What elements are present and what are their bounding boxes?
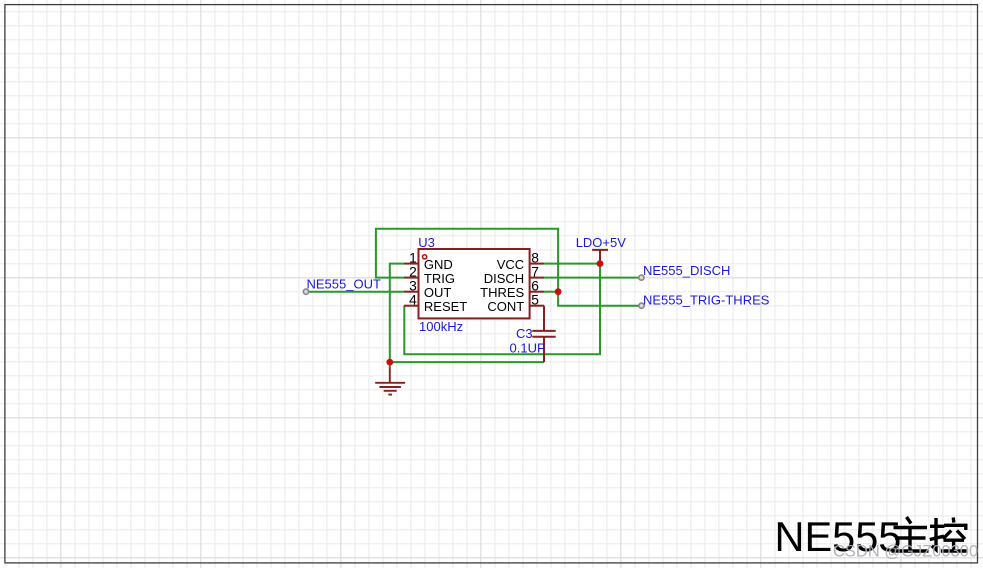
ground xyxy=(389,362,391,368)
svg-text:NE555_DISCH: NE555_DISCH xyxy=(643,263,730,278)
svg-text:VCC: VCC xyxy=(497,257,524,272)
junction ground node xyxy=(386,359,393,366)
node NE555_DISCH endpoint xyxy=(639,275,644,280)
pin 7 stub xyxy=(530,277,544,279)
pin 4 stub xyxy=(404,305,419,307)
power flag LDO+5V xyxy=(592,250,608,264)
svg-text:NE555_TRIG-THRES: NE555_TRIG-THRES xyxy=(643,293,770,308)
svg-text:0.1UF: 0.1UF xyxy=(510,340,545,355)
wire NE555_OUT to pin3 xyxy=(306,291,404,293)
pin 8 stub xyxy=(530,263,544,265)
svg-text:C3: C3 xyxy=(516,326,533,341)
svg-text:100kHz: 100kHz xyxy=(419,319,463,334)
wire GND net: pin1 down to ground rail and C3 bottom xyxy=(390,264,544,363)
svg-text:4: 4 xyxy=(409,293,417,308)
op-amp U3 body (NE555) xyxy=(419,249,530,318)
node NE555_OUT endpoint xyxy=(303,289,308,294)
svg-text:1: 1 xyxy=(409,251,417,266)
svg-text:GND: GND xyxy=(424,257,453,272)
junction THRES node xyxy=(555,288,562,295)
svg-text:U3: U3 xyxy=(418,235,435,250)
svg-text:CONT: CONT xyxy=(487,299,524,314)
svg-text:6: 6 xyxy=(531,279,539,294)
wire NE555_TRIG-THRES: pin2 loop over top to pin6 column and label xyxy=(376,229,642,306)
svg-text:7: 7 xyxy=(531,265,539,280)
svg-text:TRIG: TRIG xyxy=(424,271,455,286)
wire pin6 THRES stub link xyxy=(544,291,558,293)
title glyph 主 xyxy=(892,517,929,551)
pin 6 stub xyxy=(530,291,544,293)
svg-text:DISCH: DISCH xyxy=(484,271,524,286)
svg-text:CSDN @GJZ00300: CSDN @GJZ00300 xyxy=(833,543,978,561)
svg-text:THRES: THRES xyxy=(480,285,524,300)
svg-text:8: 8 xyxy=(531,251,539,266)
pin 2 stub xyxy=(404,277,419,279)
wire NE555_DISCH from pin7 xyxy=(544,277,641,279)
title glyph 控 xyxy=(930,518,967,552)
capacitor C3 xyxy=(532,306,555,362)
pin 5 stub xyxy=(530,305,544,307)
pin1 polarity dot xyxy=(423,255,427,259)
wire VCC pin8 to LDO+5V node xyxy=(544,263,600,265)
junction +5V node xyxy=(597,260,604,267)
pin 1 stub xyxy=(404,263,419,265)
svg-text:RESET: RESET xyxy=(424,299,467,314)
svg-text:NE555_OUT: NE555_OUT xyxy=(307,277,381,292)
wire +5V rail down and left to pin4 RESET xyxy=(404,264,600,355)
svg-text:2: 2 xyxy=(409,265,417,280)
svg-text:5: 5 xyxy=(531,293,539,308)
svg-text:LDO+5V: LDO+5V xyxy=(576,235,627,250)
svg-text:3: 3 xyxy=(409,279,417,294)
pin 3 stub xyxy=(404,291,419,293)
node NE555_TRIG-THRES endpoint xyxy=(639,303,644,308)
svg-text:OUT: OUT xyxy=(424,285,452,300)
